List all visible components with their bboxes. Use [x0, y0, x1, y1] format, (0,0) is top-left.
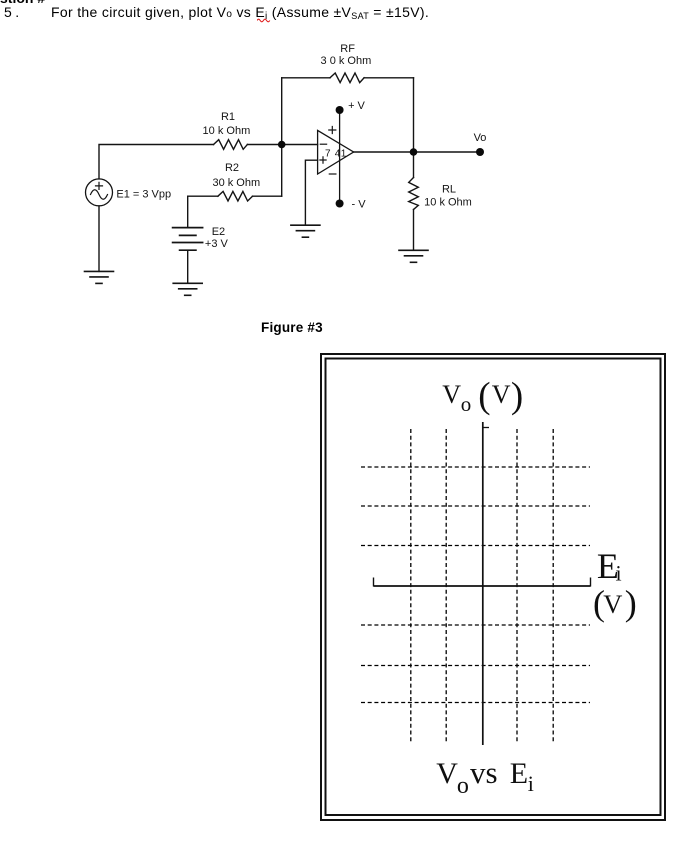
svg-text:E: E	[510, 757, 528, 790]
op-amp + supply mark	[329, 127, 336, 134]
svg-text:V: V	[603, 589, 622, 619]
E1 sine wave	[91, 190, 108, 200]
svg-text:o: o	[461, 392, 472, 416]
question number 5.	[4, 4, 23, 20]
graph inner border	[326, 359, 661, 816]
gridline vertical 4	[552, 429, 554, 742]
wire R1 to op-amp inverting input	[247, 144, 317, 146]
gridline vertical 1	[410, 429, 412, 742]
y-axis top tick	[483, 427, 489, 429]
op-amp inverting input mark	[320, 143, 326, 145]
y-axis	[482, 422, 484, 745]
node dot output junction	[410, 148, 418, 156]
question text	[51, 4, 429, 22]
x-axis right cap	[590, 578, 592, 587]
svg-text:i: i	[528, 771, 534, 796]
wire node riser (RF left drop to R2 right)	[281, 78, 283, 196]
wire non-inverting input to ground	[305, 160, 317, 225]
svg-text:V: V	[436, 757, 458, 790]
battery E2	[173, 228, 203, 251]
wire R2 right to riser	[253, 195, 282, 197]
x-axis	[374, 585, 591, 587]
svg-text:vs: vs	[470, 755, 498, 790]
source E1	[86, 179, 113, 206]
gridline horizontal 4	[361, 624, 590, 626]
wire RL to ground	[413, 210, 415, 251]
dot -V	[336, 200, 344, 208]
x-axis left cap	[373, 578, 375, 587]
gridline vertical 2	[445, 429, 447, 742]
svg-text:(: (	[478, 376, 490, 417]
gridline horizontal 1	[361, 466, 590, 468]
wire R2 left stub	[188, 195, 218, 197]
ground (E2)	[173, 283, 202, 295]
svg-text:): )	[511, 376, 523, 417]
Figure #3 caption	[261, 320, 323, 335]
wire op-amp output to Vo	[354, 151, 480, 153]
ground (E1)	[85, 271, 114, 283]
red squiggle under Ei	[257, 18, 271, 23]
wire RF right drop to output	[413, 78, 415, 152]
supply rail +V to -V through op-amp	[339, 110, 341, 204]
wire E1 bottom to ground	[98, 206, 100, 272]
terminal dot Vo	[476, 148, 484, 156]
resistor R2	[218, 191, 253, 201]
svg-text:o: o	[457, 773, 469, 799]
ground (op-amp non-inverting)	[291, 225, 320, 237]
node dot inverting junction	[278, 141, 286, 149]
svg-text:i: i	[616, 561, 622, 586]
wire RF top right	[364, 77, 413, 79]
gridline vertical 3	[516, 429, 518, 742]
E1 plus mark	[96, 182, 103, 189]
svg-text:V: V	[492, 380, 511, 409]
op-amp - supply mark	[329, 173, 336, 175]
op-amp non-inverting input mark	[320, 157, 326, 163]
gridline horizontal 5	[361, 665, 590, 667]
ground (RL)	[399, 250, 428, 262]
wire E2 to ground	[187, 250, 189, 283]
gridline horizontal 6	[361, 702, 590, 704]
resistor RL	[409, 178, 419, 210]
resistor R1	[214, 140, 248, 150]
dot +V	[336, 106, 344, 114]
svg-text:V: V	[442, 380, 461, 409]
wire E1 top to R1 left	[99, 145, 214, 179]
gridline horizontal 2	[361, 505, 590, 507]
wire R2 to battery E2	[187, 196, 189, 227]
wire output node to RL	[413, 152, 415, 178]
gridline horizontal 3	[361, 545, 590, 547]
wire RF top left	[282, 77, 330, 79]
op-amp U1 741 triangle	[318, 130, 354, 174]
svg-text:): )	[625, 583, 637, 623]
resistor RF	[330, 73, 364, 83]
cut-off bold header fragment	[0, 0, 200, 6]
graph outer border	[321, 354, 665, 820]
